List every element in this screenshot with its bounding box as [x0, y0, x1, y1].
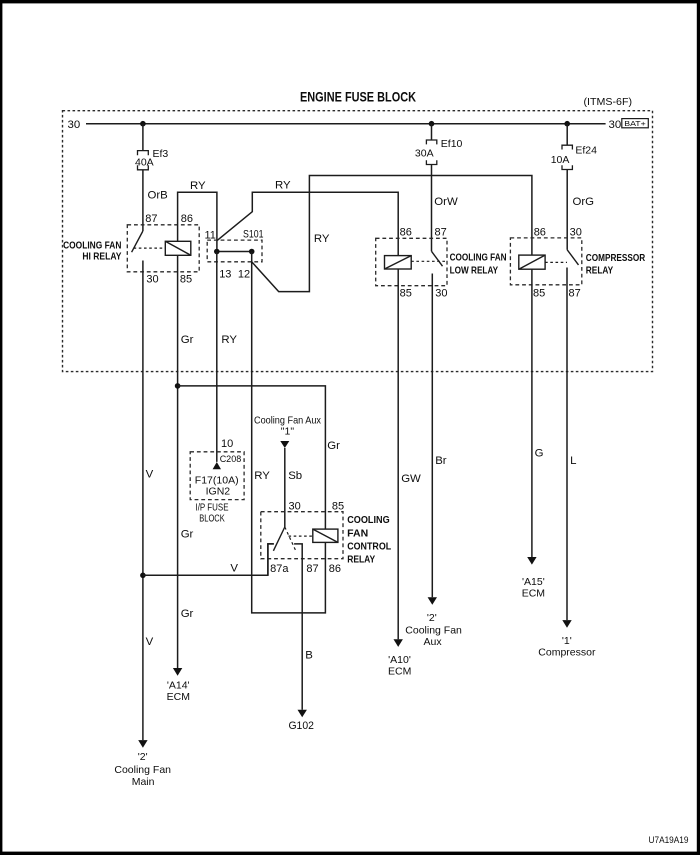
BAT+ box	[622, 119, 649, 128]
junction dot S101 left	[214, 249, 220, 255]
svg-text:85: 85	[180, 273, 192, 285]
svg-text:RY: RY	[314, 233, 330, 245]
wire bus to fuse Ef10	[431, 124, 433, 140]
svg-text:86: 86	[534, 227, 546, 239]
svg-text:'2': '2'	[138, 751, 148, 763]
contact 87a lead	[268, 544, 274, 575]
svg-text:Cooling Fan: Cooling Fan	[114, 764, 171, 776]
junction dot on bus at Ef24	[564, 121, 570, 127]
svg-text:COOLING FAN: COOLING FAN	[63, 240, 121, 251]
svg-text:RELAY: RELAY	[586, 265, 614, 276]
relay K2 switch blade	[432, 251, 443, 266]
fuse Ef24 10A	[562, 145, 572, 169]
bus 30 wire	[86, 123, 606, 125]
relay K1 mechanical link	[134, 247, 166, 249]
wire Sb to control relay pin 30	[284, 448, 286, 527]
svg-text:Gr: Gr	[181, 608, 194, 620]
svg-text:B: B	[305, 649, 313, 661]
svg-text:BAT+: BAT+	[624, 119, 646, 128]
svg-text:40A: 40A	[135, 156, 154, 168]
relay K4 mechanical link	[289, 535, 313, 537]
svg-text:LOW RELAY: LOW RELAY	[450, 266, 499, 277]
wire Br low relay pin 30 down	[431, 274, 433, 598]
relay K1 switch blade	[132, 231, 143, 252]
svg-text:30: 30	[68, 119, 81, 131]
relay K1 coil	[165, 241, 191, 255]
relay K3 COMPRESSOR RELAY box	[510, 238, 581, 285]
svg-text:30: 30	[289, 500, 301, 512]
fuse Ef10 30A	[426, 140, 436, 165]
wire RY S101 pin 12 down to control relay pin 86 loop	[252, 252, 326, 613]
connector C208 triangle	[213, 462, 221, 469]
svg-text:87: 87	[306, 563, 318, 575]
svg-text:RY: RY	[254, 470, 270, 482]
wire OrG fuse Ef24 to compressor relay pin 30	[566, 170, 568, 250]
junction dot S101 right	[249, 249, 255, 255]
svg-text:30: 30	[435, 287, 447, 299]
svg-text:S101: S101	[243, 229, 264, 241]
svg-text:'A14': 'A14'	[167, 679, 190, 691]
svg-text:RELAY: RELAY	[347, 555, 375, 566]
svg-text:13: 13	[219, 269, 231, 281]
junction dot on bus at Ef3	[140, 121, 146, 127]
junction dot Gr branch	[175, 383, 181, 389]
svg-text:11: 11	[205, 229, 216, 241]
svg-text:Main: Main	[132, 776, 155, 788]
svg-text:86: 86	[400, 227, 412, 239]
svg-text:'1': '1'	[562, 635, 572, 647]
fuse Ef3 40A	[138, 151, 149, 170]
relay K4 COOLING FAN CONTROL RELAY box	[261, 512, 343, 559]
wire GW low relay pin 85 down	[397, 269, 399, 639]
svg-text:COOLING FAN: COOLING FAN	[450, 253, 507, 264]
svg-text:Aux: Aux	[424, 636, 443, 648]
svg-text:U7A19A19: U7A19A19	[649, 835, 689, 846]
svg-text:86: 86	[329, 563, 341, 575]
splice wire between dots	[217, 251, 252, 253]
relay K2 COOLING FAN LOW RELAY box	[376, 238, 447, 285]
svg-text:COMPRESSOR: COMPRESSOR	[586, 253, 646, 264]
svg-text:Ef10: Ef10	[441, 138, 463, 150]
wire OrB fuse Ef3 to relay pin 87	[142, 170, 144, 231]
svg-text:G102: G102	[288, 720, 314, 732]
svg-text:OrB: OrB	[148, 190, 168, 202]
wire RY S101 pin 13 down to C208	[216, 252, 218, 462]
svg-text:'2': '2'	[427, 612, 437, 624]
svg-text:IGN2: IGN2	[206, 486, 231, 498]
engine fuse block dashed box	[63, 111, 653, 372]
svg-text:10A: 10A	[551, 154, 570, 166]
relay K3 mechanical link	[545, 261, 567, 263]
svg-text:ECM: ECM	[388, 665, 411, 677]
svg-text:(ITMS-6F): (ITMS-6F)	[584, 96, 633, 108]
svg-text:Sb: Sb	[288, 470, 302, 482]
svg-text:'A15': 'A15'	[522, 576, 545, 588]
svg-text:87a: 87a	[270, 563, 289, 575]
svg-text:"1": "1"	[281, 425, 295, 437]
svg-text:RY: RY	[221, 334, 237, 346]
arrow to A14 ECM	[173, 668, 182, 676]
svg-text:COOLING: COOLING	[347, 515, 390, 526]
wire RY coil 86 up and over to S101 pin 11	[178, 192, 217, 251]
svg-text:Compressor: Compressor	[538, 646, 596, 658]
svg-text:CONTROL: CONTROL	[347, 541, 391, 552]
arrow to A15 ECM	[527, 557, 536, 565]
svg-text:30: 30	[609, 119, 622, 131]
svg-text:L: L	[570, 455, 576, 467]
svg-text:C208: C208	[220, 454, 242, 464]
wire V hi relay pin 30 down to cooling fan main	[142, 261, 144, 741]
svg-text:OrG: OrG	[573, 196, 595, 208]
arrow to G102	[298, 710, 307, 718]
relay K4 coil	[313, 529, 338, 542]
relay K4 switch blade	[273, 527, 284, 551]
svg-text:85: 85	[400, 287, 412, 299]
arrow to cooling fan main	[138, 740, 147, 748]
svg-text:RY: RY	[275, 180, 291, 192]
svg-text:30: 30	[146, 273, 158, 285]
wire B contact 87 down to G102	[294, 544, 302, 710]
splice S101 box	[207, 240, 262, 262]
svg-text:Ef3: Ef3	[153, 148, 169, 160]
svg-text:HI RELAY: HI RELAY	[82, 252, 121, 263]
svg-text:FAN: FAN	[347, 528, 368, 539]
relay K4 switch alternate throw dashed	[285, 527, 296, 551]
svg-text:87: 87	[145, 213, 157, 225]
svg-text:Gr: Gr	[327, 440, 340, 452]
svg-text:87: 87	[435, 227, 447, 239]
junction dot on bus at Ef10	[429, 121, 435, 127]
svg-text:Cooling Fan: Cooling Fan	[405, 624, 462, 636]
svg-text:85: 85	[332, 500, 344, 512]
wire RY S101 pin 11 diagonal to low relay pin 86	[217, 192, 398, 255]
svg-text:Gr: Gr	[181, 334, 194, 346]
relay K2 coil	[385, 256, 412, 269]
wire bus to fuse Ef3	[142, 124, 144, 151]
svg-text:Br: Br	[435, 455, 447, 467]
relay K1 COOLING FAN HI RELAY box	[127, 225, 199, 272]
svg-text:RY: RY	[190, 180, 206, 192]
arrow to compressor	[562, 620, 571, 628]
svg-text:ENGINE FUSE BLOCK: ENGINE FUSE BLOCK	[300, 89, 416, 104]
svg-text:30: 30	[570, 227, 582, 239]
wire Gr branch to control relay pin 85	[178, 386, 326, 529]
arrow to Cooling Fan Aux 2	[428, 597, 437, 605]
svg-text:G: G	[535, 447, 544, 459]
svg-text:Gr: Gr	[181, 529, 194, 541]
svg-text:87: 87	[569, 287, 581, 299]
wire L compressor relay pin 87 down	[566, 268, 568, 621]
svg-text:12: 12	[238, 269, 250, 281]
wire V branch to control relay 87a	[143, 544, 274, 575]
svg-text:OrW: OrW	[434, 196, 458, 208]
wire bus to fuse Ef24	[566, 124, 568, 146]
junction dot V to 87a branch	[140, 573, 146, 579]
svg-text:V: V	[146, 636, 154, 648]
svg-text:ECM: ECM	[167, 691, 190, 703]
svg-text:V: V	[230, 563, 238, 575]
svg-text:BLOCK: BLOCK	[199, 513, 225, 525]
svg-text:ECM: ECM	[522, 588, 545, 600]
svg-text:GW: GW	[401, 473, 421, 485]
svg-text:86: 86	[181, 213, 193, 225]
svg-text:85: 85	[533, 287, 545, 299]
relay K3 coil	[519, 255, 545, 269]
svg-text:10: 10	[221, 438, 233, 450]
arrow to A10 ECM	[394, 639, 403, 647]
svg-text:Ef24: Ef24	[575, 144, 597, 156]
I/P fuse block box	[190, 452, 244, 500]
wire OrW fuse Ef10 to low relay pin 87	[431, 165, 433, 252]
relay K3 switch blade	[567, 250, 578, 265]
wire G compressor relay pin 85 down	[531, 269, 533, 557]
svg-text:30A: 30A	[415, 148, 434, 160]
svg-text:'A10': 'A10'	[388, 654, 411, 666]
wire RY S101 pin 12 diagonal riser to compressor relay pin 86	[252, 176, 532, 292]
relay K2 mechanical link	[411, 260, 447, 262]
svg-text:V: V	[146, 469, 154, 481]
wire Gr hi relay pin 85 down to A14 ECM	[177, 255, 179, 668]
